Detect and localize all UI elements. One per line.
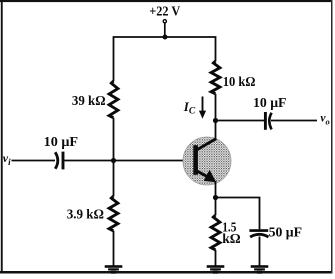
wire C2 to vo — [271, 120, 317, 122]
transistor Q1 collector lead — [197, 139, 217, 150]
svg-text:kΩ: kΩ — [222, 232, 241, 247]
junction emitter node — [213, 195, 218, 200]
wire R2 to ground — [113, 231, 115, 266]
wire collector to C2 — [216, 120, 265, 122]
ground G1 — [105, 265, 123, 273]
svg-text:39 kΩ: 39 kΩ — [72, 94, 106, 109]
wire emitter down — [215, 181, 217, 215]
resistor R1 39 kOhm — [109, 81, 118, 118]
supply terminal circle — [163, 20, 166, 23]
wire vi to C1 — [12, 160, 56, 162]
ground G3 — [251, 265, 269, 273]
wire emitter node to C3 branch — [216, 198, 260, 230]
capacitor C3 50 uF — [249, 229, 268, 237]
capacitor C2 10 uF (output) — [265, 112, 271, 130]
current arrow IC — [199, 97, 206, 119]
wire C1 to base — [64, 160, 193, 162]
wire R4 to ground — [215, 250, 217, 266]
resistor R3 10 kOhm — [211, 61, 220, 94]
svg-text:50 μF: 50 μF — [269, 226, 302, 241]
junction base node — [111, 158, 116, 163]
svg-text:IC: IC — [183, 99, 196, 117]
transistor Q1 body (stippled circle) — [183, 137, 231, 185]
ground G2 — [207, 265, 225, 273]
svg-text:+22 V: +22 V — [149, 4, 180, 19]
resistor R2 3.9 kOhm — [109, 196, 118, 231]
svg-text:vi: vi — [3, 151, 11, 167]
svg-text:3.9 kΩ: 3.9 kΩ — [67, 208, 104, 223]
resistor R4 1.5 kOhm — [211, 215, 220, 250]
svg-text:10 μF: 10 μF — [253, 96, 287, 111]
transistor Q1 emitter lead with arrow — [197, 170, 217, 182]
svg-text:10 μF: 10 μF — [44, 135, 79, 150]
wire C3 to ground — [259, 237, 261, 266]
svg-text:10 kΩ: 10 kΩ — [223, 75, 256, 90]
junction rail/supply — [163, 35, 168, 40]
svg-text:vo: vo — [320, 112, 329, 126]
junction collector/output — [213, 118, 218, 123]
wire top rail — [114, 37, 216, 81]
wire supply to rail — [164, 23, 166, 37]
wire R1 to input node — [113, 118, 115, 196]
transistor Q1 base bar — [193, 145, 198, 175]
capacitor C1 10 uF (input) — [55, 152, 63, 170]
wire R3 to collector — [215, 94, 217, 140]
